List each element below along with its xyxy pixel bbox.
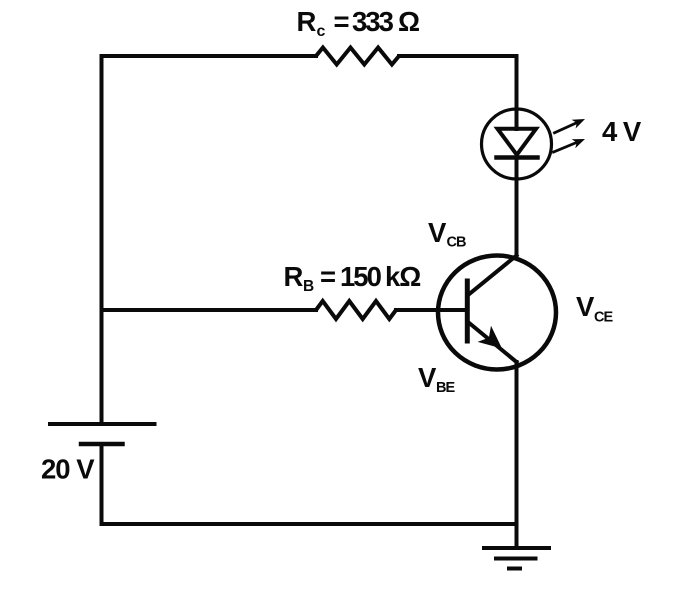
- svg-text:R: R: [284, 261, 304, 292]
- svg-text:c: c: [317, 23, 326, 40]
- svg-text:20 V: 20 V: [41, 454, 95, 485]
- svg-text:Ω: Ω: [398, 6, 420, 37]
- svg-text:V: V: [418, 362, 437, 393]
- svg-text:kΩ: kΩ: [385, 261, 420, 292]
- svg-text:R: R: [297, 6, 317, 37]
- svg-text:BE: BE: [436, 380, 455, 396]
- svg-text:CB: CB: [447, 235, 466, 251]
- svg-text:4 V: 4 V: [602, 116, 642, 147]
- svg-text:=: =: [334, 6, 350, 37]
- svg-text:150: 150: [340, 261, 382, 292]
- svg-text:V: V: [428, 217, 447, 248]
- svg-text:333: 333: [352, 6, 394, 37]
- svg-text:V: V: [576, 291, 595, 322]
- svg-text:B: B: [303, 278, 314, 295]
- svg-text:CE: CE: [594, 310, 613, 326]
- svg-text:=: =: [320, 261, 336, 292]
